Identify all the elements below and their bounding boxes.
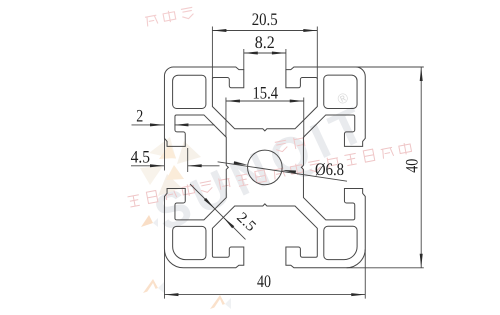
dim 8.2 line — [244, 52, 286, 54]
watermark small logo 1 — [143, 279, 164, 293]
dim 15.4 line — [226, 100, 304, 102]
svg-text:4.5: 4.5 — [131, 146, 151, 166]
svg-text:8.2: 8.2 — [255, 32, 275, 52]
watermark small logo 3 — [141, 215, 158, 227]
arrows 15.4 — [226, 100, 240, 103]
arrows 40 bottom — [164, 293, 178, 296]
dim 15.4 extension lines — [226, 98, 304, 138]
arrows 4.5 — [150, 164, 164, 167]
dim 8.2 extension lines — [244, 49, 286, 70]
watermark chinese tagline (pseudo glyph strokes) — [127, 142, 412, 207]
corner cavity bottom-left — [173, 226, 206, 259]
corner cavity bottom-right — [324, 226, 357, 259]
corner cavity top-left — [173, 75, 206, 108]
watermark pink fragment top — [145, 6, 195, 26]
dim 2 lines — [132, 124, 215, 126]
svg-text:2: 2 — [136, 106, 143, 126]
dim 40 right line — [420, 67, 422, 268]
arrows 2 — [150, 123, 164, 126]
svg-text:40: 40 — [401, 159, 421, 173]
dim 4.5 extension line — [187, 148, 189, 172]
corner cavity top-right — [324, 75, 357, 108]
arrows dia 6.8 — [234, 161, 248, 165]
leader dia 6.8 — [218, 162, 347, 181]
dim 20.5 extension lines — [212, 27, 317, 79]
watermark pink fragment middle — [275, 136, 307, 153]
svg-text:20.5: 20.5 — [252, 9, 278, 29]
arrows 20.5 — [212, 29, 226, 32]
svg-text:15.4: 15.4 — [253, 83, 279, 103]
watermark big logo pinwheel — [140, 137, 201, 196]
dim 40 right extension lines — [347, 67, 424, 268]
dim 4.5 lines — [131, 165, 220, 167]
center bore circle — [248, 150, 283, 185]
watermark brand text SUNQIT — [146, 89, 379, 243]
arrows 40 right — [420, 67, 423, 81]
arrows 8.2 — [244, 52, 258, 55]
dim 20.5 line — [212, 30, 317, 32]
dim 40 bottom line — [164, 294, 365, 296]
watermark small logo 2 — [210, 295, 231, 309]
svg-text:40: 40 — [257, 271, 271, 291]
dim 40 bottom extension lines — [164, 250, 365, 299]
leader 2.5 — [190, 184, 246, 239]
profile outer contour with four T-slots — [164, 67, 365, 268]
arrows 2.5 — [204, 198, 215, 209]
svg-text:Ø6.8: Ø6.8 — [315, 159, 344, 179]
face plane extension line — [163, 138, 165, 170]
